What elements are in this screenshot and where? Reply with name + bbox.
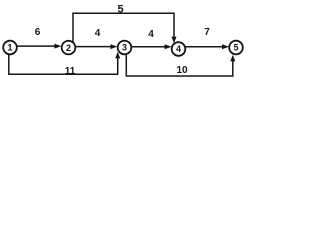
wire edge 2->3 xyxy=(75,44,117,49)
node 2 xyxy=(62,41,76,55)
svg-text:5: 5 xyxy=(117,3,123,15)
arrowhead into node 4 xyxy=(172,37,177,44)
svg-text:3: 3 xyxy=(122,43,127,53)
svg-text:10: 10 xyxy=(176,65,188,76)
svg-text:5: 5 xyxy=(233,43,238,53)
wire edge 4->5 xyxy=(186,44,229,49)
svg-text:4: 4 xyxy=(95,28,101,39)
svg-text:11: 11 xyxy=(65,66,76,77)
wire edge 3->4 xyxy=(132,44,172,49)
svg-text:4: 4 xyxy=(176,44,181,54)
wire edge 2->4 top detour xyxy=(73,13,174,42)
wire edge 1->3 bottom detour xyxy=(9,54,118,74)
wire edge 3->5 bottom detour xyxy=(126,54,233,76)
svg-text:4: 4 xyxy=(148,29,154,40)
arrowhead into node 3 xyxy=(115,52,120,59)
svg-text:7: 7 xyxy=(204,27,210,38)
arrowhead into node 5 xyxy=(230,55,235,62)
svg-text:2: 2 xyxy=(66,43,71,53)
node 5 xyxy=(229,41,243,55)
svg-text:6: 6 xyxy=(35,27,41,38)
node 1 xyxy=(3,41,17,55)
wire edge 1->2 xyxy=(17,44,61,49)
node 3 xyxy=(118,41,132,55)
svg-text:1: 1 xyxy=(7,43,12,53)
node 4 xyxy=(172,42,186,56)
